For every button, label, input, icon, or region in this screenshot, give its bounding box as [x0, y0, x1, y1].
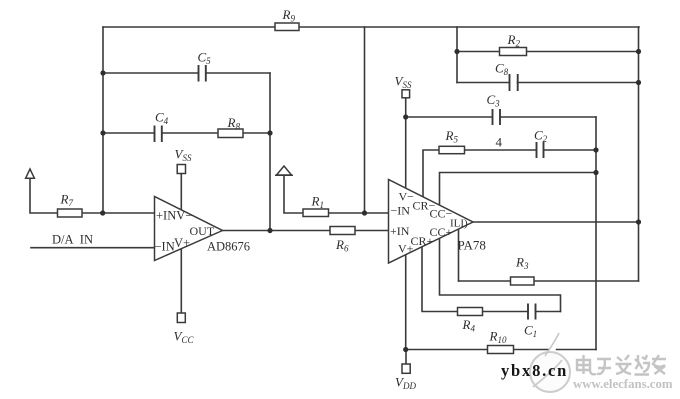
junction node C4/x103: [100, 130, 105, 135]
svg-text:−IN: −IN: [391, 204, 411, 218]
wire R1 to U2 -IN: [329, 212, 389, 214]
svg-text:+IN: +IN: [390, 224, 410, 238]
junction node R2 right: [636, 49, 641, 54]
svg-text:R7: R7: [60, 192, 74, 209]
capacitor C5: [199, 64, 206, 82]
capacitor C8: [510, 73, 518, 92]
terminal VSS U1: [177, 165, 185, 174]
arrow symbol 1: [26, 169, 35, 178]
junction node R7/x103: [100, 210, 105, 215]
wire CC- branch y=172.5: [440, 173, 597, 207]
wire CR- to R5/C2: [423, 150, 596, 198]
svg-text:VCC: VCC: [174, 329, 195, 346]
svg-text:VSS: VSS: [395, 74, 412, 91]
svg-text:V+: V+: [174, 236, 190, 250]
wire R2 branch y=51.5: [457, 51, 639, 53]
wire right mid vertical x=596: [595, 117, 597, 350]
svg-text:OUT: OUT: [190, 224, 215, 238]
wire right vertical x=638.5: [638, 27, 640, 281]
wire C3 branch y=117: [406, 116, 596, 118]
wire arrow2 to R1: [284, 175, 303, 214]
svg-text:C1: C1: [524, 323, 537, 340]
wire vertical x=457: [456, 27, 458, 83]
capacitor C4: [155, 125, 162, 143]
junction node VSS2/C3: [403, 114, 408, 119]
capacitor C2: [537, 141, 544, 159]
svg-text:C5: C5: [198, 50, 212, 67]
watermark elecfans logo circle: [530, 332, 570, 392]
svg-text:C2: C2: [534, 128, 548, 145]
wire VSS stem U1: [180, 174, 182, 212]
svg-text:PA78: PA78: [458, 238, 486, 253]
resistor R10: [488, 346, 514, 354]
wire D/A IN input: [31, 247, 155, 249]
junction node C5/x103: [100, 70, 105, 75]
wire arrow1 to R7: [30, 177, 58, 213]
wire mid vertical x=270: [269, 73, 271, 231]
svg-text:+INV−: +INV−: [156, 209, 192, 223]
svg-text:D/A IN: D/A IN: [52, 233, 93, 247]
junction node U1 out: [267, 228, 272, 233]
wire U1 output to R6: [223, 230, 389, 232]
wire C4/R8 branch y=133: [103, 132, 270, 134]
wire VCC stem U1: [180, 247, 182, 313]
wire VSS stem U2: [405, 98, 407, 191]
svg-text:C8: C8: [495, 61, 509, 78]
wire C8 branch y=82.5: [457, 82, 639, 84]
svg-text:VDD: VDD: [395, 375, 416, 392]
resistor R4: [458, 308, 483, 316]
wire C5 branch y=73: [103, 72, 270, 74]
wire ILIM stem: [458, 228, 460, 281]
wire CR+ to R4/C1: [422, 245, 561, 312]
svg-text:−IN: −IN: [155, 240, 175, 254]
resistor R8: [218, 129, 243, 138]
svg-text:R3: R3: [515, 255, 529, 272]
wire R3 branch y=281: [459, 280, 639, 282]
svg-text:ILI): ILI): [450, 218, 468, 230]
terminal VDD: [402, 364, 410, 373]
junction node R2 left: [454, 49, 459, 54]
wire R7 to U1 +IN: [82, 212, 155, 214]
junction node C8 right: [636, 80, 641, 85]
terminal VCC U1: [177, 313, 185, 323]
svg-text:www.elecfans.com: www.elecfans.com: [573, 377, 673, 391]
wire vertical x=365: [364, 27, 366, 213]
wire U2 output: [473, 221, 639, 223]
capacitor C1: [528, 303, 536, 321]
capacitor C3: [493, 108, 501, 126]
svg-text:R1: R1: [311, 194, 324, 211]
junction node C2 right: [593, 147, 598, 152]
svg-text:AD8676: AD8676: [207, 240, 250, 254]
wire CC+ branch: [440, 236, 561, 312]
resistor R6: [330, 227, 355, 235]
terminal VSS U2: [402, 90, 410, 98]
svg-text:C3: C3: [487, 92, 501, 109]
svg-text:R8: R8: [227, 115, 241, 132]
wire top rail node A: [103, 26, 639, 28]
wire left vertical x=103: [102, 27, 104, 213]
resistor R9: [275, 23, 299, 31]
resistor R3: [511, 277, 535, 285]
wire V+ stem U2: [405, 253, 407, 350]
svg-text:ybx8.cn: ybx8.cn: [501, 361, 568, 380]
wire bottom rail VDD: [406, 349, 596, 351]
junction node C4-R8/x270: [267, 130, 272, 135]
svg-text:V+: V+: [398, 242, 414, 256]
svg-text:R5: R5: [445, 128, 459, 145]
svg-text:4: 4: [496, 135, 503, 150]
svg-text:R4: R4: [462, 317, 476, 334]
op-amp U1 AD8676 triangle: [155, 197, 223, 261]
resistor R7: [58, 209, 83, 217]
junction node U2 out right: [636, 219, 641, 224]
watermark chinese text 电子发烧友: [577, 355, 666, 375]
svg-text:R9: R9: [282, 7, 296, 24]
svg-text:R10: R10: [489, 329, 507, 346]
op-amp U2 PA78 triangle: [389, 180, 474, 264]
junction node CC- right: [593, 170, 598, 175]
svg-text:C4: C4: [155, 110, 169, 127]
resistor R1: [303, 209, 329, 217]
svg-text:R6: R6: [335, 237, 349, 254]
svg-text:R2: R2: [507, 32, 521, 49]
junction node V+/VDD rail: [403, 347, 408, 352]
resistor R5: [439, 146, 465, 153]
resistor R2: [500, 48, 527, 56]
arrow symbol 2: [275, 166, 293, 175]
junction node R1/x365: [362, 210, 367, 215]
svg-text:CR+: CR+: [411, 234, 434, 248]
svg-text:VSS: VSS: [175, 147, 192, 164]
wire VDD stem: [405, 350, 407, 365]
